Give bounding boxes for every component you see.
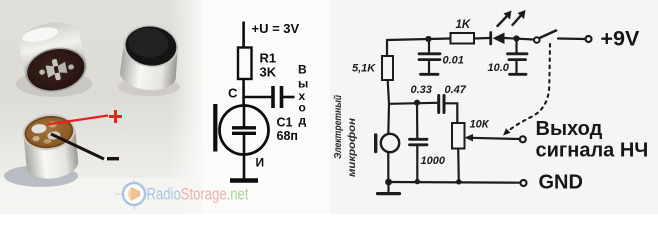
- svg-text:Выход: Выход: [536, 118, 603, 140]
- microphone M1 (electret) circle: [220, 106, 269, 155]
- node C label: [228, 86, 238, 101]
- wire: rail down to 5.1K: [386, 40, 388, 56]
- label 0.33: [411, 84, 432, 96]
- label R1: [260, 51, 277, 66]
- svg-text:В: В: [298, 63, 307, 77]
- svg-text:0.47: 0.47: [445, 84, 467, 96]
- wire: R1 to node C: [242, 79, 245, 106]
- svg-text:И: И: [256, 156, 265, 170]
- wire: node C to C1: [243, 96, 273, 99]
- plus lead wire (red): [47, 116, 108, 125]
- wire: node A to coupling cap: [389, 103, 437, 104]
- svg-text:5,1K: 5,1K: [352, 63, 376, 75]
- minus polarity mark: [107, 157, 119, 160]
- terminal GND: [521, 180, 527, 186]
- LED arrows: [498, 10, 526, 26]
- wire: C1 to output: [283, 96, 295, 99]
- svg-text:+U = 3V: +U = 3V: [252, 21, 300, 36]
- terminal output: [520, 136, 526, 142]
- label 3K: [260, 65, 277, 80]
- svg-text:GND: GND: [539, 172, 583, 194]
- node: LED/C 10.0 junction: [513, 35, 519, 41]
- svg-text:микрофон: микрофон: [346, 118, 358, 177]
- microphone BM1 bottom lead: [387, 152, 389, 181]
- label GND: [539, 172, 583, 194]
- svg-text:10.0: 10.0: [488, 62, 510, 74]
- watermark logo icon: [115, 179, 153, 210]
- label сигнала НЧ: [536, 140, 649, 162]
- middle panel labels: [228, 21, 308, 170]
- svg-text:о: о: [299, 101, 306, 115]
- label 0.01: [443, 55, 464, 67]
- svg-text:1000: 1000: [421, 155, 446, 167]
- wire: bottom rail: [388, 181, 520, 184]
- node: top-left junction: [425, 36, 431, 42]
- ground (under 0.01): [421, 73, 439, 76]
- label C1: [277, 116, 293, 130]
- microphone capsule photo, top-left (back view, dark PCB): [15, 17, 92, 98]
- svg-text:RadioStorage.net: RadioStorage.net: [147, 186, 249, 204]
- svg-text:сигнала НЧ: сигнала НЧ: [536, 140, 649, 162]
- svg-text:R1: R1: [260, 51, 277, 66]
- right panel handwritten value labels: [333, 19, 510, 177]
- label +9V: [601, 27, 641, 51]
- label 1K: [456, 19, 471, 31]
- label 10.0: [488, 62, 510, 74]
- node A junction dot: [414, 100, 420, 106]
- terminal +9V: [586, 36, 592, 42]
- ground: [230, 178, 258, 183]
- svg-text:0.33: 0.33: [411, 84, 432, 96]
- wire: 5.1K to node A: [388, 80, 389, 104]
- resistor 1K: [451, 33, 475, 44]
- dashed link: switch to potentiometer: [503, 44, 550, 136]
- ground (under 10.0): [510, 73, 527, 76]
- potentiometer 10K body: [452, 123, 465, 149]
- plus polarity mark: [109, 110, 122, 123]
- microphone BM1 body: [381, 134, 399, 152]
- watermark text RadioStorage.net: [147, 186, 249, 204]
- minus lead wire (black): [51, 134, 104, 159]
- microphone BM1 top lead: [387, 104, 390, 134]
- wire: top rail left section: [387, 39, 450, 41]
- label Выход: [536, 118, 603, 140]
- resistor 5.1K: [382, 56, 393, 80]
- label +U = 3V: [252, 21, 300, 36]
- label 5,1K: [352, 63, 376, 75]
- label 68p: [277, 129, 298, 143]
- capacitor 10.0: [508, 39, 528, 74]
- wire: coupling cap to potentiometer top: [446, 103, 458, 123]
- svg-text:1K: 1K: [456, 19, 471, 31]
- label 1000: [421, 155, 446, 167]
- svg-text:68п: 68п: [277, 129, 298, 143]
- svg-text:10К: 10К: [470, 119, 490, 131]
- capacitor 0.01: [419, 39, 440, 73]
- svg-text:д: д: [299, 114, 307, 128]
- svg-text:С: С: [228, 86, 238, 101]
- label 0.47: [445, 84, 467, 96]
- capacitor 0.33-0.47 plates: [439, 96, 444, 113]
- wire: microphone to ground: [243, 155, 246, 180]
- node: 1000 cap to rail: [415, 179, 420, 184]
- right panel paper background: [330, 0, 658, 214]
- microphone membrane bar: [213, 104, 217, 152]
- capacitor C1 plates: [273, 86, 282, 108]
- microphone capsule photo, top-right (front view, black face): [118, 22, 181, 96]
- capacitor 1000 (electrolytic): [410, 103, 428, 181]
- wire: pot bottom to rail: [457, 149, 460, 182]
- wire: 1K to LED: [474, 37, 489, 40]
- wire: supply to R1: [242, 22, 245, 48]
- label 10K: [470, 119, 490, 131]
- wire: LED to switch: [505, 38, 534, 40]
- node: mic to rail: [385, 179, 392, 186]
- svg-text:0.01: 0.01: [443, 55, 464, 67]
- vertical label Выход: [298, 63, 308, 128]
- internal capacitor element of microphone: [232, 106, 256, 155]
- resistor R1: [238, 48, 252, 80]
- svg-text:C1: C1: [277, 116, 293, 130]
- label И (output electrode): [256, 156, 265, 170]
- wire: switch to +9V terminal: [558, 37, 585, 40]
- ground (main): [378, 183, 400, 194]
- svg-text:+9V: +9V: [601, 27, 641, 51]
- potentiometer wiper arrow to output: [465, 134, 520, 141]
- svg-text:Электретный: Электретный: [333, 95, 344, 159]
- svg-text:3K: 3K: [260, 65, 277, 80]
- microphone capsule photo, bottom-left (back view, copper PCB): [4, 111, 81, 187]
- microphone BM1 membrane bar: [374, 135, 377, 152]
- node: pot to rail: [456, 179, 461, 184]
- LED VD1 (diode): [491, 33, 505, 45]
- vertical label микрофон: [346, 118, 358, 177]
- vertical label Электретный: [333, 95, 344, 159]
- switch SA1: [534, 31, 556, 43]
- right panel printed labels: [536, 27, 649, 194]
